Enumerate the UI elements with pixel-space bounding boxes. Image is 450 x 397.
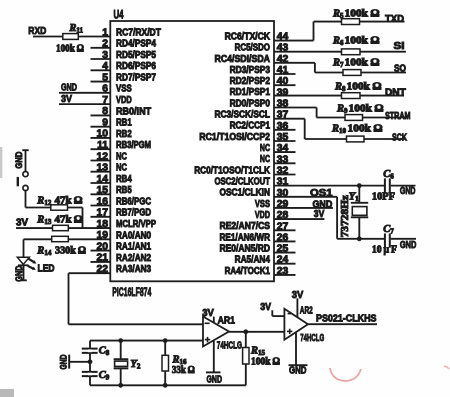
svg-text:OSC2/CLKOUT: OSC2/CLKOUT bbox=[215, 177, 271, 188]
svg-text:330k Ω: 330k Ω bbox=[55, 246, 86, 257]
svg-text:RB4: RB4 bbox=[116, 174, 132, 185]
svg-text:RA5/AN4: RA5/AN4 bbox=[235, 255, 271, 266]
svg-text:10 μ F: 10 μ F bbox=[372, 245, 397, 256]
svg-text:STRAM: STRAM bbox=[385, 111, 411, 122]
svg-text:RA3/AN3: RA3/AN3 bbox=[116, 264, 151, 275]
svg-text:RB6/PGC: RB6/PGC bbox=[116, 196, 152, 207]
svg-text:100k Ω: 100k Ω bbox=[349, 103, 384, 114]
svg-text:PS021-CLKHS: PS021-CLKHS bbox=[316, 314, 377, 325]
svg-text:74HCLG: 74HCLG bbox=[217, 341, 242, 352]
svg-text:RC7/RX/DT: RC7/RX/DT bbox=[116, 27, 161, 38]
svg-text:74HCLG: 74HCLG bbox=[300, 333, 324, 344]
svg-text:100k Ω: 100k Ω bbox=[251, 357, 280, 368]
svg-text:RA0/AN0: RA0/AN0 bbox=[116, 230, 151, 241]
svg-text:SCK: SCK bbox=[392, 132, 407, 143]
svg-text:3V: 3V bbox=[202, 308, 214, 319]
svg-text:TXD: TXD bbox=[385, 14, 404, 25]
svg-text:GND: GND bbox=[289, 366, 307, 377]
svg-text:VDD: VDD bbox=[255, 210, 270, 221]
svg-text:100k Ω: 100k Ω bbox=[345, 58, 380, 69]
svg-text:VSS: VSS bbox=[116, 84, 132, 95]
svg-text:NC: NC bbox=[116, 163, 127, 174]
svg-text:47k Ω: 47k Ω bbox=[55, 215, 83, 226]
svg-text:3V: 3V bbox=[314, 209, 325, 220]
svg-text:GND: GND bbox=[14, 266, 25, 282]
svg-text:GND: GND bbox=[14, 152, 25, 169]
svg-text:RA4/TOCK1: RA4/TOCK1 bbox=[225, 266, 271, 277]
svg-text:GND: GND bbox=[207, 374, 223, 385]
svg-text:SO: SO bbox=[394, 63, 406, 74]
svg-text:RC2/CCP1: RC2/CCP1 bbox=[230, 121, 271, 132]
svg-text:33k Ω: 33k Ω bbox=[172, 365, 195, 376]
svg-text:100k Ω: 100k Ω bbox=[345, 36, 380, 47]
svg-text:RD2/PSP2: RD2/PSP2 bbox=[230, 76, 271, 87]
svg-text:NC: NC bbox=[260, 143, 270, 154]
svg-text:RD6/PSP6: RD6/PSP6 bbox=[116, 61, 156, 72]
svg-text:RB7/PGD: RB7/PGD bbox=[116, 208, 151, 219]
svg-text:NC: NC bbox=[116, 151, 127, 162]
svg-text:U4: U4 bbox=[114, 8, 124, 22]
svg-text:RC4/SDI/SDA: RC4/SDI/SDA bbox=[215, 54, 271, 65]
svg-text:RC3/SCK/SCL: RC3/SCK/SCL bbox=[215, 110, 271, 121]
svg-text:RD4/PSP4: RD4/PSP4 bbox=[116, 39, 156, 50]
svg-text:PIC16LF874: PIC16LF874 bbox=[112, 285, 151, 299]
svg-text:VSS: VSS bbox=[255, 199, 270, 210]
svg-text:RB5: RB5 bbox=[116, 185, 132, 196]
svg-text:RC5/SDO: RC5/SDO bbox=[235, 43, 270, 54]
svg-text:RD7/PSP7: RD7/PSP7 bbox=[116, 73, 156, 84]
svg-text:RB1: RB1 bbox=[116, 118, 132, 129]
svg-text:RD5/PSP5: RD5/PSP5 bbox=[116, 50, 156, 61]
svg-text:MCLR/VPP: MCLR/VPP bbox=[116, 219, 156, 230]
svg-text:100k Ω: 100k Ω bbox=[348, 124, 383, 135]
svg-text:NC: NC bbox=[260, 154, 270, 165]
svg-text:OSC1/CLKIN: OSC1/CLKIN bbox=[220, 188, 271, 199]
svg-text:GND: GND bbox=[59, 354, 70, 369]
svg-text:LED: LED bbox=[38, 263, 55, 274]
svg-text:3V: 3V bbox=[260, 302, 271, 313]
svg-text:RC0/T1OSO/T1CLK: RC0/T1OSO/T1CLK bbox=[194, 165, 270, 176]
svg-text:AR2: AR2 bbox=[300, 305, 313, 316]
svg-text:RD0/PSP0: RD0/PSP0 bbox=[230, 98, 271, 109]
svg-text:VDD: VDD bbox=[116, 95, 132, 106]
svg-text:3V: 3V bbox=[61, 94, 72, 105]
svg-text:3V: 3V bbox=[16, 217, 28, 228]
svg-text:RE1/AN6/WR: RE1/AN6/WR bbox=[220, 232, 271, 243]
svg-text:100k Ω: 100k Ω bbox=[345, 9, 380, 20]
svg-text:RD3/PSP3: RD3/PSP3 bbox=[230, 65, 271, 76]
svg-text:RB0/INT: RB0/INT bbox=[116, 106, 152, 117]
svg-text:RC6/TX/CK: RC6/TX/CK bbox=[225, 31, 271, 42]
svg-text:47k Ω: 47k Ω bbox=[55, 195, 83, 206]
svg-text:100k Ω: 100k Ω bbox=[56, 44, 84, 55]
svg-text:GND: GND bbox=[400, 240, 417, 251]
svg-text:RXD: RXD bbox=[28, 26, 46, 37]
svg-text:RC1/T1OSI/CCP2: RC1/T1OSI/CCP2 bbox=[199, 132, 270, 143]
svg-text:RA2/AN2: RA2/AN2 bbox=[116, 253, 151, 264]
svg-text:OS1: OS1 bbox=[310, 188, 333, 199]
svg-text:AR1: AR1 bbox=[218, 316, 236, 327]
svg-text:10PF: 10PF bbox=[372, 192, 395, 203]
svg-text:SI: SI bbox=[394, 41, 405, 52]
svg-text:39: 39 bbox=[277, 87, 289, 98]
svg-text:100k Ω: 100k Ω bbox=[347, 81, 382, 92]
svg-text:RE0/AN5/RD: RE0/AN5/RD bbox=[220, 244, 271, 255]
svg-text:GND: GND bbox=[400, 186, 416, 197]
svg-text:RD1/PSP1: RD1/PSP1 bbox=[230, 87, 271, 98]
svg-text:RB3/PGM: RB3/PGM bbox=[116, 140, 151, 151]
svg-text:RE2/AN7/CS: RE2/AN7/CS bbox=[220, 221, 271, 232]
svg-text:RB2: RB2 bbox=[116, 129, 132, 140]
svg-text:DNT: DNT bbox=[385, 87, 406, 98]
svg-text:73728Hz: 73728Hz bbox=[340, 194, 351, 237]
svg-text:RA1/AN1: RA1/AN1 bbox=[116, 242, 151, 253]
